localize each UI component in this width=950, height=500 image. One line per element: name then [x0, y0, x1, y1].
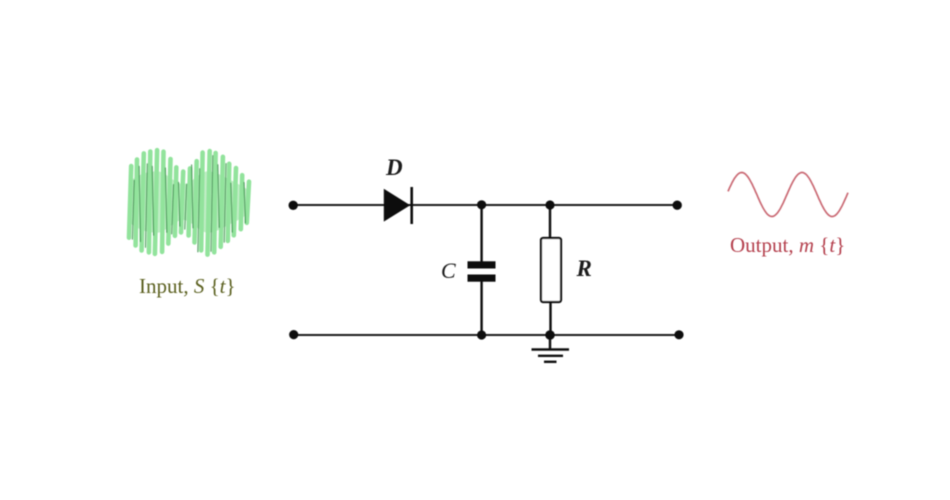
diode D (anode triangle)	[384, 189, 410, 222]
waveform wash	[130, 171, 248, 232]
node junction top of C	[477, 200, 486, 209]
wire bottom rail	[294, 334, 679, 336]
svg-text:D: D	[385, 155, 403, 180]
svg-text:Input, S {t}: Input, S {t}	[139, 274, 236, 298]
node bottom-right dot	[674, 330, 683, 339]
resistor R body	[541, 238, 561, 302]
wire resistor top lead	[549, 205, 551, 239]
node junction bottom of C	[477, 330, 486, 339]
node bottom-left dot	[289, 330, 298, 339]
waveform light strokes	[129, 166, 131, 238]
node junction bottom of R (ground node)	[545, 330, 555, 340]
waveform dark strokes	[132, 180, 134, 239]
node output terminal (top-right dot)	[673, 201, 682, 210]
ground stub wire	[549, 335, 551, 349]
svg-text:Output, m {t}: Output, m {t}	[730, 233, 845, 257]
node junction top of R	[545, 200, 554, 209]
diode D cathode bar	[410, 187, 413, 224]
wire resistor bottom lead	[549, 302, 551, 335]
svg-text:R: R	[576, 256, 592, 281]
capacitor C top plate	[468, 261, 496, 268]
wire capacitor bottom lead	[480, 281, 482, 335]
ground bar 2	[538, 355, 563, 357]
ground bar 3	[544, 361, 557, 363]
ground bar 1	[532, 348, 570, 351]
wire top rail	[293, 204, 677, 206]
node input terminal (top-left dot)	[289, 201, 298, 210]
capacitor C bottom plate	[468, 275, 496, 282]
svg-text:C: C	[441, 258, 456, 283]
wire capacitor top lead	[480, 205, 482, 262]
output sine wave m(t)	[728, 173, 848, 217]
input AM waveform S(t)	[129, 150, 249, 254]
